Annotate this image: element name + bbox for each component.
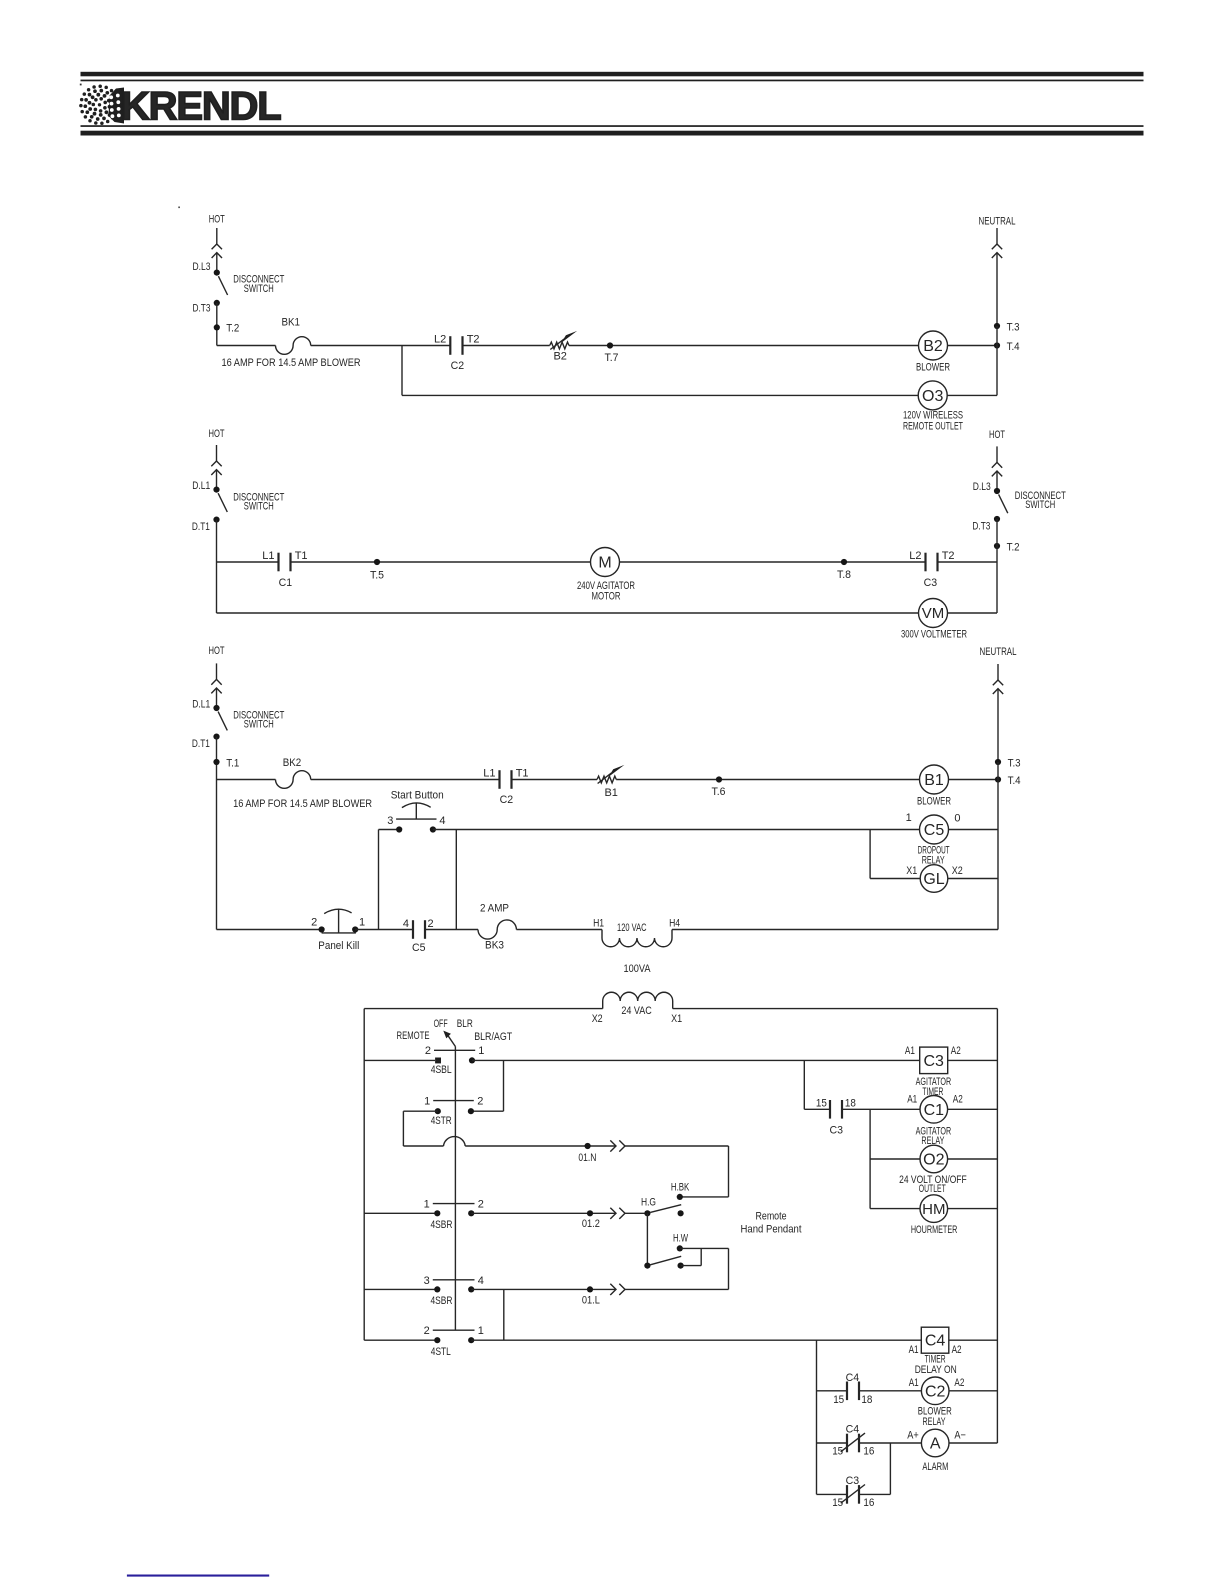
svg-text:1: 1	[424, 1199, 430, 1211]
contact C2 rung1 L2-T2	[450, 336, 462, 355]
disconnect switch rung2 right blade	[999, 494, 1008, 513]
svg-text:300V VOLTMETER: 300V VOLTMETER	[901, 629, 967, 641]
svg-text:NEUTRAL: NEUTRAL	[979, 216, 1016, 228]
wire C4 NC row left	[817, 1442, 848, 1444]
transformer secondary coil X2-X1	[592, 992, 682, 1025]
svg-text:C3: C3	[924, 577, 938, 589]
svg-text:C4: C4	[925, 1333, 946, 1350]
node T.4 rung1	[994, 342, 1000, 348]
wire left rail rung2	[216, 520, 218, 613]
wire C4 contact row left	[817, 1390, 848, 1392]
svg-text:BLOWER: BLOWER	[917, 796, 951, 808]
svg-text:REMOTE: REMOTE	[397, 1030, 430, 1042]
node NEUTRAL feed rung3	[980, 646, 1017, 762]
wire bottom row to panel kill	[217, 929, 322, 931]
node 4STL terminal 1	[468, 1337, 474, 1343]
svg-text:18: 18	[845, 1098, 856, 1110]
node 4STR terminal 2	[468, 1108, 474, 1114]
circuit breaker BK3	[478, 920, 516, 939]
svg-text:T1: T1	[295, 550, 308, 562]
svg-text:A1: A1	[909, 1344, 919, 1356]
svg-text:SWITCH: SWITCH	[244, 501, 274, 513]
header bottom thick rule	[81, 131, 1144, 136]
svg-text:C4: C4	[846, 1424, 860, 1436]
node D.L3 rung1	[214, 270, 220, 276]
blower motor B2	[919, 331, 948, 360]
node T.3 rung1	[994, 323, 1000, 329]
svg-text:4SBR: 4SBR	[431, 1295, 453, 1307]
svg-text:NEUTRAL: NEUTRAL	[980, 646, 1017, 658]
node HOT feed rung3 left	[209, 645, 225, 708]
wire box top left	[364, 1008, 603, 1010]
svg-text:4: 4	[403, 918, 409, 930]
contact C3 rung2 L2-T2	[926, 553, 938, 572]
svg-text:BLR/AGT: BLR/AGT	[474, 1031, 512, 1043]
wire connector to H.G	[625, 1212, 647, 1214]
svg-text:BK1: BK1	[281, 316, 300, 328]
svg-text:2: 2	[478, 1199, 484, 1211]
svg-text:1: 1	[478, 1045, 484, 1057]
svg-text:B1: B1	[924, 772, 944, 789]
wire B1 rheostat to blower B1	[616, 779, 919, 781]
node H.G	[644, 1210, 650, 1216]
transformer primary coil H1-H4	[593, 918, 680, 947]
wire H4 to right rail	[672, 929, 998, 931]
wire rung3 to BK2	[217, 779, 276, 781]
node panel kill terminal 1	[352, 926, 358, 932]
svg-text:HOT: HOT	[209, 645, 225, 657]
svg-text:01.2: 01.2	[582, 1218, 600, 1230]
blower motor B1	[920, 765, 949, 794]
pendant switch upper blade	[650, 1205, 681, 1213]
pendant switch lower blade	[650, 1256, 681, 1265]
node T.7	[607, 342, 613, 348]
node D.L1 rung2	[213, 487, 219, 493]
svg-text:01.L: 01.L	[582, 1294, 600, 1306]
svg-text:A−: A−	[954, 1429, 966, 1441]
dropout relay C5	[920, 815, 949, 844]
wire relay column vertical	[869, 1109, 871, 1208]
wire lower throw link	[681, 1265, 702, 1267]
node pendant lower throw	[678, 1263, 684, 1269]
svg-text:HOT: HOT	[209, 428, 225, 440]
svg-text:HOT: HOT	[989, 429, 1005, 441]
node panel kill terminal 2	[319, 926, 325, 932]
svg-text:DELAY ON: DELAY ON	[915, 1364, 957, 1376]
connector O1.L	[610, 1284, 625, 1295]
node T.6	[716, 776, 722, 782]
svg-text:BK2: BK2	[283, 757, 302, 769]
wire C1 to right rail	[948, 1108, 998, 1110]
svg-text:T.5: T.5	[370, 570, 384, 582]
svg-text:T.3: T.3	[1007, 322, 1020, 334]
svg-text:HOT: HOT	[209, 214, 225, 226]
node start button terminal 4	[430, 826, 436, 832]
wire start button to C5 coil	[433, 829, 920, 831]
svg-text:O3: O3	[922, 388, 943, 405]
wire O1.L to pendant	[625, 1288, 729, 1290]
wire 4SBL to C3 timer coil	[472, 1059, 920, 1061]
svg-text:B1: B1	[604, 787, 617, 799]
contact C1 rung2 L1-T1	[279, 553, 291, 572]
wire alarm column vertical	[816, 1340, 818, 1494]
wire box right rail	[996, 1009, 998, 1443]
svg-text:3: 3	[387, 815, 393, 827]
node HOT feed rung2 left	[209, 428, 225, 490]
wire rung2 bottom to voltmeter	[217, 612, 919, 614]
node D.T1 rung2	[213, 517, 219, 523]
svg-text:C3: C3	[846, 1475, 860, 1487]
svg-text:C5: C5	[412, 942, 426, 954]
wire BK2 to contact C2	[311, 779, 500, 781]
selector switch shaft	[454, 1047, 456, 1331]
svg-text:HM: HM	[922, 1201, 945, 1218]
wire panel kill to C5 contact	[355, 929, 413, 931]
wire rail to 4SBL	[364, 1059, 435, 1061]
wire C3 NC up to alarm row	[859, 1493, 890, 1495]
svg-text:C2: C2	[500, 794, 514, 806]
wire rung1 left segment	[217, 345, 276, 347]
svg-text:A2: A2	[952, 1344, 962, 1356]
svg-text:2: 2	[424, 1325, 430, 1337]
agitator motor M	[591, 548, 620, 577]
blower relay C2	[921, 1377, 949, 1405]
svg-text:1: 1	[359, 917, 365, 929]
svg-text:16 AMP FOR 14.5 AMP BLOWER: 16 AMP FOR 14.5 AMP BLOWER	[233, 798, 372, 810]
disconnect switch rung1 blade	[218, 276, 227, 295]
wire box left rail	[363, 1009, 365, 1341]
svg-text:Panel Kill: Panel Kill	[318, 940, 359, 952]
wire O1.N to pendant	[625, 1145, 729, 1147]
agitator timer C3	[920, 1047, 948, 1074]
node pendant upper throw	[678, 1210, 684, 1216]
wire right rail rung3	[997, 762, 999, 930]
svg-text:T2: T2	[942, 550, 955, 562]
outlet O2	[920, 1145, 948, 1173]
wire GL branch horizontal	[870, 878, 920, 880]
node T.3 rung3	[995, 759, 1001, 765]
svg-text:HOURMETER: HOURMETER	[911, 1224, 958, 1236]
wire GL branch vertical	[869, 830, 871, 879]
svg-text:2: 2	[477, 1096, 483, 1108]
contact C4 NC 15-16	[841, 1433, 865, 1452]
svg-text:D.L1: D.L1	[192, 480, 210, 492]
svg-text:16: 16	[863, 1446, 874, 1458]
wire C1 to motor	[291, 561, 591, 563]
wire C4 contact to C2 relay	[859, 1390, 921, 1392]
svg-text:X2: X2	[952, 865, 963, 877]
wire right rail rung2	[996, 519, 998, 613]
disconnect switch rung2 blade	[218, 493, 227, 512]
svg-text:X2: X2	[592, 1013, 603, 1025]
wire 4STL to C4 timer	[471, 1339, 921, 1341]
wire box top right	[673, 1008, 998, 1010]
wire C5 contact to BK3	[425, 929, 478, 931]
svg-text:L2: L2	[434, 334, 446, 346]
svg-text:1: 1	[906, 812, 912, 824]
svg-text:Start Button: Start Button	[391, 790, 444, 802]
node D.L3 rung2 right	[994, 488, 1000, 494]
svg-text:T.4: T.4	[1008, 775, 1021, 787]
node 4SBR terminal 1	[434, 1210, 440, 1216]
svg-text:A1: A1	[909, 1377, 919, 1389]
svg-text:B2: B2	[553, 351, 566, 363]
node H.BK	[677, 1194, 683, 1200]
wire start button right vertical	[455, 830, 457, 930]
svg-text:D.L1: D.L1	[192, 698, 210, 710]
svg-text:C1: C1	[924, 1102, 945, 1119]
svg-text:A1: A1	[905, 1045, 915, 1057]
svg-text:15: 15	[832, 1446, 843, 1458]
switch 4SBL bar	[434, 1049, 475, 1051]
rheostat B1	[597, 765, 624, 784]
svg-text:C1: C1	[279, 577, 293, 589]
svg-text:15: 15	[832, 1497, 843, 1509]
wire 4SBR-4 down to 4STL row	[503, 1289, 505, 1340]
wire BK1 to contact C2	[311, 345, 451, 347]
wire neutral rail rung1	[996, 326, 998, 395]
svg-text:T.4: T.4	[1007, 341, 1020, 353]
node HOT feed rung2 right	[989, 429, 1005, 491]
node 4SBR terminal 4	[468, 1286, 474, 1292]
circuit breaker BK1	[276, 337, 311, 355]
node O1.2	[587, 1210, 593, 1216]
wire start button left vertical	[378, 830, 380, 930]
wire O1.N row	[465, 1145, 616, 1147]
node T.4 rung3	[995, 776, 1001, 782]
svg-text:C4: C4	[846, 1372, 860, 1384]
contact C3 15-18	[830, 1100, 842, 1119]
svg-text:BK3: BK3	[485, 940, 504, 952]
node 4STR terminal 1	[435, 1108, 441, 1114]
node start button terminal 3	[396, 826, 402, 832]
pushbutton Panel Kill NC	[311, 909, 365, 952]
svg-text:MOTOR: MOTOR	[592, 591, 621, 603]
svg-text:1: 1	[478, 1325, 484, 1337]
svg-text:D.L3: D.L3	[193, 261, 211, 273]
pushbutton Start Button	[387, 790, 445, 827]
svg-text:16 AMP FOR 14.5 AMP BLOWER: 16 AMP FOR 14.5 AMP BLOWER	[222, 357, 361, 369]
node T.2 rung1	[214, 324, 220, 330]
wire hop over shaft	[444, 1137, 466, 1146]
node T.1	[213, 759, 219, 765]
outlet O3	[918, 381, 947, 410]
node 4SBR terminal 2	[468, 1210, 474, 1216]
stray mark top-left	[80, 84, 82, 86]
svg-text:M: M	[598, 555, 611, 572]
svg-text:SWITCH: SWITCH	[244, 283, 274, 295]
svg-text:C2: C2	[451, 360, 465, 372]
svg-text:A2: A2	[954, 1377, 964, 1389]
svg-text:RELAY: RELAY	[923, 1416, 946, 1428]
wire B2 to neutral rail	[948, 345, 998, 347]
wire 4SBR-2 to H.G	[471, 1212, 616, 1214]
svg-text:A: A	[930, 1436, 941, 1453]
svg-text:4STL: 4STL	[431, 1346, 451, 1358]
wire BK3 to transformer H1	[516, 929, 602, 931]
svg-text:B2: B2	[923, 338, 943, 355]
contact C3 NC 15-16	[841, 1485, 865, 1504]
svg-text:GL: GL	[923, 871, 944, 888]
svg-text:L1: L1	[483, 768, 495, 780]
wire VM to right rail	[948, 612, 998, 614]
wire rail to 4SBR-1	[364, 1212, 437, 1214]
svg-text:Remote: Remote	[756, 1210, 787, 1222]
svg-text:15: 15	[833, 1394, 844, 1406]
svg-text:120 VAC: 120 VAC	[617, 922, 647, 934]
wire rail to 4SBR-3	[364, 1288, 437, 1290]
wire drop to C3 contact	[803, 1060, 805, 1109]
svg-text:OFF: OFF	[434, 1018, 448, 1030]
svg-text:D.T3: D.T3	[193, 302, 211, 314]
wire rung1 branch down to O3	[401, 346, 403, 396]
svg-text:A+: A+	[907, 1429, 919, 1441]
wire HM to right rail	[948, 1208, 998, 1210]
wire C2 to rheostat B2	[463, 345, 550, 347]
svg-text:2 AMP: 2 AMP	[480, 903, 509, 915]
switch 4STR bar	[433, 1100, 474, 1102]
wire rail to 4STL-2	[364, 1339, 437, 1341]
rheostat B2	[550, 331, 577, 350]
svg-text:X1: X1	[906, 865, 917, 877]
wire B1 to T.4	[949, 779, 999, 781]
svg-text:01.N: 01.N	[578, 1152, 596, 1164]
wire 4SBL-1 down to 4STR-2	[503, 1060, 505, 1111]
svg-text:D.T1: D.T1	[192, 521, 210, 533]
svg-text:15: 15	[816, 1098, 827, 1110]
node D.T3 rung2 right	[994, 516, 1000, 522]
svg-text:4STR: 4STR	[431, 1115, 452, 1127]
connector O1.N	[610, 1140, 625, 1151]
svg-text:2: 2	[425, 1045, 431, 1057]
svg-text:T.6: T.6	[712, 786, 726, 798]
node 4SBL terminal 2 square	[435, 1058, 441, 1064]
indicator lamp GL	[920, 865, 948, 893]
agitator relay C1	[920, 1096, 948, 1124]
svg-text:100VA: 100VA	[624, 963, 652, 975]
svg-text:C2: C2	[925, 1383, 946, 1400]
svg-text:T.2: T.2	[1007, 542, 1020, 554]
wire C2 to rheostat B1	[512, 779, 598, 781]
node T.5	[374, 559, 380, 565]
svg-text:2: 2	[311, 917, 317, 929]
wire 4SBR-4 to O1.L	[471, 1288, 616, 1290]
node 4SBR terminal 3	[434, 1286, 440, 1292]
svg-text:H4: H4	[669, 918, 680, 930]
wire HM row left	[870, 1208, 920, 1210]
hourmeter HM	[920, 1195, 948, 1223]
connector O1.2	[610, 1208, 625, 1219]
svg-text:A2: A2	[953, 1093, 963, 1105]
svg-text:REMOTE OUTLET: REMOTE OUTLET	[903, 420, 963, 432]
svg-text:D.T3: D.T3	[972, 520, 990, 532]
svg-text:L1: L1	[262, 550, 274, 562]
svg-text:T.3: T.3	[1008, 758, 1021, 770]
switch 4SBR bar 1-2	[433, 1203, 475, 1205]
svg-text:4: 4	[439, 815, 445, 827]
stray mark rung1	[178, 207, 180, 209]
node NEUTRAL feed rung1	[979, 216, 1016, 326]
svg-text:24 VAC: 24 VAC	[621, 1005, 652, 1017]
node pendant lower common	[644, 1263, 650, 1269]
wire alarm to right rail	[949, 1442, 997, 1444]
svg-text:H1: H1	[593, 918, 604, 930]
svg-text:T.2: T.2	[226, 323, 239, 335]
node 4SBL terminal 1	[469, 1057, 475, 1063]
svg-text:0: 0	[954, 812, 960, 824]
svg-text:KRENDL: KRENDL	[121, 85, 281, 129]
wire O3 to neutral rail	[947, 394, 997, 396]
contact C5 4-2	[413, 920, 425, 939]
selector switch lever	[443, 1031, 455, 1047]
svg-text:T1: T1	[516, 768, 529, 780]
switch 4SBR bar 3-4	[433, 1279, 475, 1281]
svg-text:BLR: BLR	[457, 1018, 473, 1030]
svg-text:O2: O2	[923, 1152, 944, 1169]
svg-text:Hand Pendant: Hand Pendant	[741, 1224, 802, 1236]
wire start button left leg	[379, 829, 400, 831]
alarm A	[921, 1429, 949, 1457]
node O1.N	[585, 1143, 591, 1149]
wire rung2 to C1	[217, 561, 279, 563]
wire C2 to right rail	[949, 1390, 997, 1392]
svg-text:T.8: T.8	[837, 569, 851, 581]
wire H.W to O1.L rail	[680, 1247, 729, 1249]
switch 4STL bar	[433, 1329, 475, 1331]
svg-text:H.G: H.G	[641, 1196, 656, 1208]
node HOT feed rung1 left	[209, 214, 225, 273]
wire D.T3 to rung1	[216, 303, 218, 346]
svg-text:X1: X1	[671, 1013, 682, 1025]
node T.8	[841, 559, 847, 565]
contact C2 rung3 L1-T1	[500, 770, 512, 789]
wire O2 row left	[870, 1158, 920, 1160]
svg-text:ALARM: ALARM	[922, 1461, 948, 1473]
svg-text:1: 1	[424, 1096, 430, 1108]
wire H.G down	[646, 1213, 648, 1265]
svg-text:D.T1: D.T1	[192, 738, 210, 750]
svg-text:H.BK: H.BK	[671, 1181, 690, 1193]
svg-text:4: 4	[478, 1275, 484, 1287]
wire C3 to right rail	[938, 561, 998, 563]
wire C3 timer to right rail	[948, 1059, 998, 1061]
wire B2 rheostat to blower B2	[569, 345, 919, 347]
node O1.L	[587, 1286, 593, 1292]
disconnect switch rung3 blade	[218, 712, 227, 731]
wire C3 NC row left	[817, 1493, 848, 1495]
svg-text:18: 18	[861, 1394, 872, 1406]
wire GL to right rail	[948, 878, 998, 880]
svg-text:T2: T2	[467, 334, 480, 346]
wire left rail rung3	[216, 737, 218, 930]
svg-text:SWITCH: SWITCH	[1025, 499, 1055, 511]
svg-text:4SBR: 4SBR	[431, 1219, 453, 1231]
footer blue rule	[127, 1575, 269, 1577]
wire C5 to right rail	[949, 829, 999, 831]
circuit breaker BK2	[276, 771, 311, 789]
svg-text:A2: A2	[951, 1045, 961, 1057]
svg-text:A1: A1	[907, 1093, 917, 1105]
svg-text:H.W: H.W	[673, 1233, 688, 1245]
svg-text:T.1: T.1	[226, 758, 239, 770]
wire O2 to right rail	[948, 1158, 998, 1160]
node T.2 rung2 right	[994, 543, 1000, 549]
node H.W	[677, 1245, 683, 1251]
Krendl logo dot globe	[79, 84, 120, 125]
voltmeter VM	[919, 599, 948, 628]
svg-text:T.7: T.7	[605, 352, 619, 364]
svg-text:3: 3	[424, 1275, 430, 1287]
